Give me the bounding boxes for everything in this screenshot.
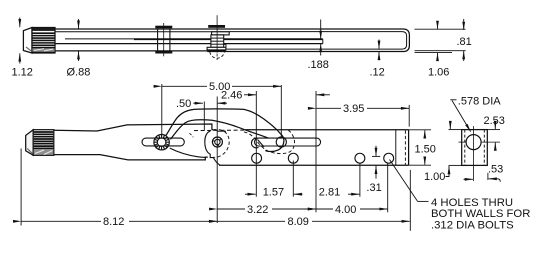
shaft outer bottom line	[55, 50, 208, 52]
body end inner line	[395, 130, 397, 165]
svg-text:1.57: 1.57	[263, 187, 284, 199]
dim 8.09	[217, 220, 285, 222]
lever bar top line	[65, 38, 134, 40]
dimension 1.06 arrows	[437, 21, 439, 61]
ext hole1	[255, 91, 257, 197]
end view hole .578	[466, 135, 481, 150]
dim 2.53 ext	[487, 129, 500, 131]
dimension .12 arrows	[378, 40, 380, 61]
clamp step bar	[212, 32, 230, 35]
dim 1.57	[245, 193, 256, 195]
body inner end hidden (dashed)	[404, 131, 406, 165]
body bottom edge	[219, 164, 409, 166]
hidden edge left of cam (dashed)	[190, 133, 194, 137]
end view outline	[462, 130, 488, 166]
lever bar bottom line	[55, 43, 323, 45]
lever top curve	[166, 109, 284, 152]
end view vertical centerline	[473, 126, 475, 181]
svg-text:BOTH WALLS FOR: BOTH WALLS FOR	[431, 208, 530, 220]
body right end edge	[408, 130, 410, 165]
clamp centerline	[216, 15, 218, 52]
dim 8.12	[21, 220, 101, 222]
extension line bottom right A	[415, 50, 466, 52]
thumb knob outer (knurled wheel)	[154, 135, 169, 150]
dimension O.88 arrows	[78, 19, 80, 61]
ext body left edge	[203, 102, 205, 131]
svg-text:1.06: 1.06	[428, 67, 449, 79]
cam plate solid outline	[205, 131, 220, 165]
leader 4 holes note	[390, 160, 418, 202]
shaft outer top line	[55, 28, 208, 30]
svg-text:.31: .31	[366, 182, 381, 194]
ext body right end (upper)	[408, 105, 410, 127]
svg-text:.312 DIA BOLTS: .312 DIA BOLTS	[431, 220, 514, 232]
ext hole4	[387, 164, 389, 213]
ext pin circle	[280, 85, 282, 137]
svg-text:3.22: 3.22	[247, 204, 268, 216]
ext right lower	[409, 170, 411, 231]
svg-text:4.00: 4.00	[335, 204, 356, 216]
clamp block	[211, 35, 224, 47]
collar bolt upper cap	[155, 26, 172, 29]
hole 3	[355, 153, 365, 163]
lever lower edge	[171, 120, 269, 140]
handle tip chamfer (top view)	[23, 28, 32, 54]
dimension .81 arrows	[463, 19, 465, 61]
dim 2.46	[244, 94, 256, 96]
dim 4.00	[316, 208, 333, 210]
svg-text:2.53: 2.53	[484, 115, 505, 127]
dim .53 arrow	[489, 178, 498, 180]
dim 3.22	[217, 208, 245, 210]
hole 2	[288, 153, 298, 163]
hole 1	[252, 153, 262, 163]
svg-text:.188: .188	[308, 59, 329, 71]
pin slot (long oval)	[255, 138, 321, 146]
extension line bottom right B	[415, 52, 453, 54]
ext knob center	[161, 84, 163, 135]
end view left wall hidden line	[464, 130, 466, 166]
svg-text:2.81: 2.81	[319, 187, 340, 199]
pivot inner notches	[213, 139, 220, 146]
ext handle tip	[20, 148, 22, 225]
dim 3.95	[316, 107, 341, 109]
dim .31	[375, 146, 377, 156]
svg-text:8.09: 8.09	[288, 216, 309, 228]
svg-text:2.46: 2.46	[221, 90, 242, 102]
dim 1.50 ext	[409, 129, 431, 131]
lever edge crossing slot	[258, 140, 265, 147]
dim .53 tick	[487, 173, 489, 180]
ext hole3	[359, 164, 361, 197]
dim 1.00 horizontal arrow	[464, 178, 473, 180]
svg-text:1.00: 1.00	[424, 171, 445, 183]
leader .578 DIA	[450, 99, 456, 101]
clamp hidden arc below	[210, 52, 225, 58]
ext hole2	[292, 161, 294, 197]
pivot inner circle	[215, 139, 220, 144]
body top edge solid	[245, 129, 409, 131]
hole 4	[384, 153, 394, 163]
extension line top right	[415, 28, 466, 30]
body top ledge right of pivot	[217, 130, 226, 132]
dim 5.00	[162, 85, 207, 87]
end view horizontal centerline	[459, 141, 467, 143]
dimension .188 arrows	[320, 20, 322, 56]
dim 1.00 arrows	[449, 123, 451, 129]
dim 1.00 ext	[449, 129, 462, 131]
svg-text:1.50: 1.50	[415, 143, 436, 155]
dim .50	[193, 102, 203, 104]
cam plate hidden outline (dashed)	[213, 130, 229, 158]
dimension 1.12 arrows	[19, 18, 21, 64]
svg-text:.81: .81	[457, 36, 472, 48]
svg-text:.12: .12	[370, 67, 385, 79]
hidden body top edge (dashed)	[194, 129, 245, 132]
plan top edge of shaft	[54, 124, 214, 131]
svg-text:Ø.88: Ø.88	[67, 67, 91, 79]
collar centerline	[163, 23, 165, 56]
knob knurling	[154, 135, 169, 150]
ext slot right	[315, 91, 317, 212]
channel outer outline	[208, 29, 410, 52]
lever tip hook	[251, 138, 258, 148]
thumb knob inner	[157, 138, 166, 147]
lever bottom edge	[170, 148, 206, 157]
pin circle	[276, 137, 286, 147]
svg-text:.53: .53	[488, 163, 503, 175]
svg-text:8.12: 8.12	[103, 216, 124, 228]
channel inner outline	[226, 32, 407, 49]
ext pivot center	[216, 97, 218, 224]
svg-text:4 HOLES THRU: 4 HOLES THRU	[431, 197, 513, 209]
pivot outer circle	[212, 137, 222, 147]
collar bolt lower cap	[155, 51, 172, 54]
clamp bottom flange	[207, 47, 226, 50]
knurled grip block (plan)	[33, 130, 54, 156]
dim 2.81	[294, 193, 303, 195]
inner rod line	[55, 31, 229, 33]
svg-text:3.95: 3.95	[343, 103, 364, 115]
dim 2.53 arrows	[494, 123, 496, 129]
hidden lever loop (dashed)	[244, 130, 295, 153]
collar verticals	[157, 28, 159, 51]
dim 1.50 arrows	[424, 130, 426, 137]
svg-text:.578 DIA: .578 DIA	[458, 96, 501, 108]
lever bar end	[322, 39, 324, 43]
plan bottom edge of shaft	[54, 155, 208, 160]
knurled grip block (top view)	[32, 28, 55, 54]
svg-text:.50: .50	[176, 98, 191, 110]
svg-text:1.12: 1.12	[12, 67, 33, 79]
end view right wall hidden line	[483, 130, 485, 166]
handle tip chamfer (plan)	[26, 130, 34, 156]
knob slot (oval)	[142, 138, 184, 146]
clamp top flange	[208, 25, 225, 28]
